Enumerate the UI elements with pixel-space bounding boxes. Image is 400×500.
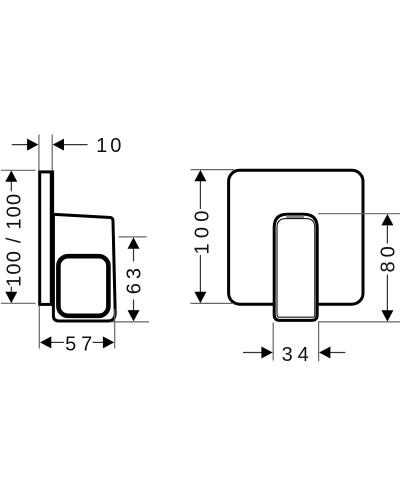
dim 57: line segment right bbox=[93, 341, 104, 343]
hook (front view) outer bbox=[274, 214, 317, 320]
dim 100/100: line segment bottom bbox=[10, 287, 12, 293]
dim 80: top extension line bbox=[318, 213, 400, 215]
dim 100/100: up arrow bbox=[5, 171, 17, 182]
dim 100: line segment top bbox=[199, 181, 201, 209]
dim 34: right tail bbox=[330, 352, 345, 354]
dim 100: up arrow bbox=[194, 170, 206, 181]
dim 80: down arrow bbox=[381, 310, 393, 321]
dim 100/100: line segment top bbox=[10, 182, 12, 192]
svg-text:10: 10 bbox=[96, 135, 124, 157]
dim 57: right arrow bbox=[103, 336, 114, 348]
dim 34: left arrow bbox=[261, 347, 272, 359]
dim 63: up arrow bbox=[128, 237, 140, 248]
face plate (front view, right) bbox=[229, 170, 363, 304]
svg-text:80: 80 bbox=[377, 242, 399, 272]
dim 34: right arrow bbox=[319, 347, 330, 359]
hook body silhouette (side view) bbox=[52, 214, 115, 321]
hook lip ring (side view) bbox=[58, 256, 108, 316]
dim 100: top extension line bbox=[191, 169, 235, 171]
dim 100: bottom extension line bbox=[191, 302, 235, 304]
dim 63: line segment top bbox=[133, 248, 135, 261]
dim 57: line segment left bbox=[51, 341, 64, 343]
dim 100/100: top extension line bbox=[1, 169, 36, 171]
dim 34: left extension line bbox=[272, 323, 274, 361]
dim 63: top extension line bbox=[119, 236, 147, 238]
svg-text:63: 63 bbox=[124, 264, 146, 294]
svg-text:100 / 100: 100 / 100 bbox=[4, 193, 26, 287]
dim 34: left tail bbox=[243, 352, 262, 354]
dim 57: right extension line bbox=[114, 309, 116, 349]
dim 100: line segment bottom bbox=[199, 255, 201, 292]
dim 10: left arrow bbox=[27, 139, 38, 151]
dim 100/100: down arrow bbox=[5, 292, 17, 303]
dim 100: down arrow bbox=[194, 292, 206, 303]
svg-text:100: 100 bbox=[192, 205, 214, 254]
wall plate (side view, left) bbox=[40, 172, 53, 305]
dim 80: bottom extension line bbox=[318, 321, 400, 323]
dim 10: extension line left bbox=[38, 135, 40, 171]
wall plate right edge (thick) bbox=[50, 171, 54, 305]
svg-text:57: 57 bbox=[65, 333, 97, 355]
dim 80: line segment top bbox=[386, 225, 388, 244]
dim 57: left arrow bbox=[40, 336, 51, 348]
dim 100/100: bottom extension line bbox=[1, 302, 36, 304]
hook (front view) inner contour bbox=[277, 219, 315, 318]
hook (front view) top face band bbox=[286, 215, 304, 218]
dim 10: right arrow bbox=[53, 139, 64, 151]
svg-text:34: 34 bbox=[282, 344, 314, 366]
dim 34: right extension line bbox=[318, 323, 320, 362]
dim 10: right tail bbox=[64, 144, 88, 146]
dim 10: extension line right bbox=[51, 135, 53, 171]
dim 80: line segment bottom bbox=[386, 275, 388, 311]
dim 63: line segment bottom bbox=[133, 300, 135, 311]
dim 10: left tail bbox=[12, 144, 28, 146]
dim 57: left extension line bbox=[38, 306, 40, 349]
dim 63: down arrow bbox=[128, 310, 140, 321]
dim 63: bottom extension line bbox=[111, 321, 149, 323]
dim 80: up arrow bbox=[381, 214, 393, 225]
